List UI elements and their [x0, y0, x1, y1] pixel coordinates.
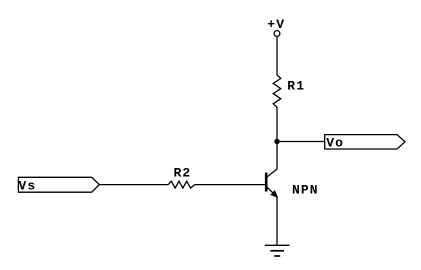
wire R1 to node: [276, 107, 278, 141]
wire R2 to base: [195, 184, 265, 186]
transistor Q1 emitter stroke: [266, 186, 277, 196]
svg-text:NPN: NPN: [292, 182, 319, 197]
wire +V to R1: [276, 37, 278, 75]
wire node to Vo: [277, 141, 325, 143]
ground bar 2: [270, 250, 284, 252]
svg-text:+V: +V: [267, 17, 285, 32]
output flag Vo: [325, 135, 405, 149]
power terminal +V circle: [274, 31, 280, 37]
wire emitter to ground: [276, 197, 278, 246]
resistor R2: [168, 181, 194, 188]
svg-text:Vs: Vs: [19, 179, 37, 194]
svg-text:R1: R1: [287, 78, 305, 93]
ground bar 3: [274, 255, 280, 257]
transistor Q1 base bar: [265, 173, 268, 192]
svg-text:R2: R2: [174, 166, 192, 181]
resistor R1: [273, 75, 281, 107]
wire node to collector: [276, 142, 278, 170]
svg-text:Vo: Vo: [326, 136, 344, 151]
node junction dot: [274, 139, 279, 144]
ground bar 1: [265, 244, 290, 246]
transistor Q1 emitter arrowhead: [271, 191, 278, 198]
transistor Q1 collector stroke: [266, 169, 277, 178]
input flag Vs: [18, 177, 99, 192]
wire Vs to R2: [99, 184, 168, 186]
